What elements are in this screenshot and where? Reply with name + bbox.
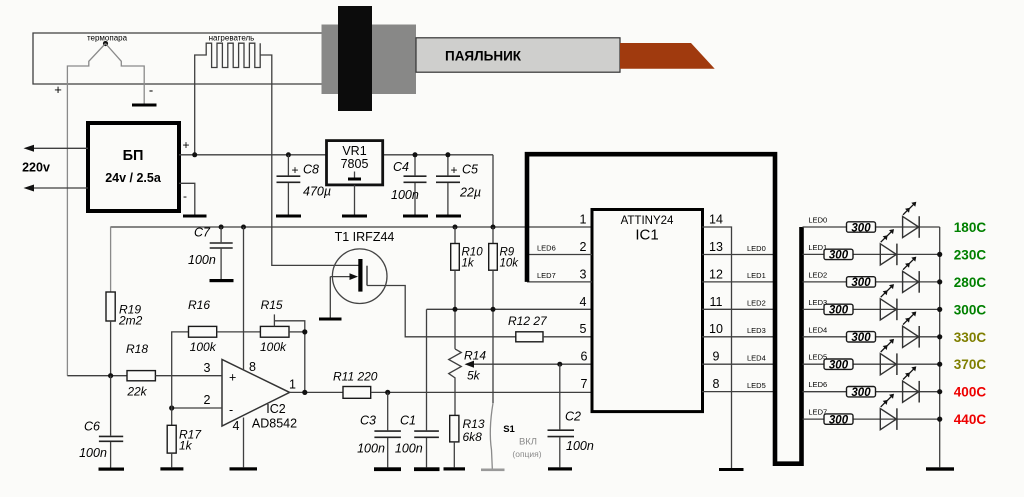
svg-text:+: +	[54, 82, 62, 97]
svg-text:22µ: 22µ	[459, 186, 481, 200]
svg-text:280C: 280C	[954, 275, 987, 290]
svg-text:ВКЛ: ВКЛ	[519, 437, 537, 448]
svg-text:2: 2	[580, 240, 587, 254]
svg-text:370C: 370C	[954, 357, 987, 372]
svg-text:300: 300	[829, 360, 849, 372]
svg-text:6: 6	[581, 350, 588, 364]
svg-text:AD8542: AD8542	[252, 417, 297, 431]
svg-text:C8: C8	[303, 163, 319, 177]
svg-text:IC2: IC2	[266, 402, 286, 416]
svg-text:БП: БП	[123, 148, 144, 164]
svg-text:10k: 10k	[500, 258, 520, 270]
svg-text:3: 3	[580, 267, 587, 281]
svg-text:ПАЯЛЬНИК: ПАЯЛЬНИК	[445, 49, 522, 64]
svg-text:100k: 100k	[260, 340, 287, 354]
svg-text:LED6: LED6	[537, 244, 556, 253]
svg-text:470µ: 470µ	[303, 185, 331, 199]
svg-text:300: 300	[851, 387, 871, 399]
svg-text:100n: 100n	[391, 188, 419, 202]
svg-text:LED3: LED3	[747, 326, 766, 335]
svg-text:2m2: 2m2	[118, 314, 143, 328]
svg-text:C4: C4	[393, 160, 409, 174]
svg-text:-: -	[149, 83, 153, 98]
svg-text:C6: C6	[84, 420, 100, 434]
svg-text:LED0: LED0	[808, 216, 827, 225]
svg-text:R13: R13	[463, 417, 485, 431]
svg-text:(опция): (опция)	[512, 449, 541, 459]
svg-text:100n: 100n	[395, 442, 423, 456]
svg-text:C7: C7	[194, 226, 211, 240]
svg-text:2: 2	[204, 393, 211, 407]
svg-text:LED6: LED6	[808, 380, 827, 389]
svg-text:3: 3	[204, 361, 211, 375]
svg-text:LED2: LED2	[808, 270, 827, 279]
svg-text:100n: 100n	[79, 446, 107, 460]
svg-text:+: +	[291, 163, 298, 177]
svg-text:12: 12	[709, 267, 723, 281]
svg-text:13: 13	[709, 240, 723, 254]
svg-text:10: 10	[709, 322, 723, 336]
svg-text:300: 300	[829, 414, 849, 426]
svg-text:C5: C5	[462, 163, 478, 177]
svg-text:9: 9	[713, 350, 720, 364]
svg-text:100k: 100k	[190, 340, 217, 354]
svg-text:4: 4	[580, 295, 587, 309]
svg-text:300: 300	[829, 250, 849, 262]
svg-text:+: +	[182, 138, 189, 152]
svg-text:C2: C2	[565, 410, 581, 424]
svg-text:LED5: LED5	[747, 381, 766, 390]
svg-text:IC1: IC1	[635, 227, 658, 244]
svg-text:R16: R16	[188, 298, 210, 312]
svg-text:1k: 1k	[179, 439, 193, 453]
svg-text:S1: S1	[503, 424, 515, 435]
svg-text:LED7: LED7	[537, 271, 556, 280]
svg-text:440C: 440C	[954, 412, 987, 427]
svg-text:R18: R18	[126, 342, 148, 356]
svg-text:LED2: LED2	[747, 299, 766, 308]
svg-text:400C: 400C	[954, 385, 987, 400]
svg-text:C1: C1	[400, 414, 416, 428]
svg-text:330C: 330C	[954, 330, 987, 345]
svg-text:7: 7	[581, 377, 588, 391]
svg-text:300: 300	[851, 222, 871, 234]
svg-text:300: 300	[851, 332, 871, 344]
svg-text:100n: 100n	[188, 253, 216, 267]
svg-text:300: 300	[851, 277, 871, 289]
svg-text:11: 11	[710, 295, 723, 309]
svg-text:6k8: 6k8	[463, 430, 483, 444]
svg-text:230C: 230C	[954, 247, 987, 262]
svg-text:4: 4	[233, 419, 240, 433]
svg-text:T1 IRFZ44: T1 IRFZ44	[335, 230, 395, 244]
svg-text:8: 8	[249, 360, 256, 374]
svg-text:100n: 100n	[566, 439, 594, 453]
svg-text:180C: 180C	[954, 220, 987, 235]
svg-text:R12 27: R12 27	[508, 314, 548, 328]
svg-text:1: 1	[289, 378, 296, 392]
svg-text:14: 14	[709, 213, 723, 227]
svg-text:-: -	[183, 189, 187, 203]
svg-text:LED1: LED1	[747, 271, 766, 280]
svg-text:300C: 300C	[954, 302, 987, 317]
svg-text:термопара: термопара	[87, 34, 128, 43]
svg-text:22k: 22k	[126, 385, 147, 399]
svg-text:LED0: LED0	[747, 244, 766, 253]
svg-text:7805: 7805	[341, 157, 369, 171]
svg-text:нагреватель: нагреватель	[209, 34, 255, 43]
svg-text:100n: 100n	[357, 442, 385, 456]
svg-text:+: +	[450, 163, 457, 177]
svg-text:24v / 2.5a: 24v / 2.5a	[105, 171, 162, 185]
svg-text:ATTINY24: ATTINY24	[621, 215, 674, 227]
svg-text:5k: 5k	[467, 369, 481, 383]
svg-text:R11 220: R11 220	[333, 370, 378, 384]
svg-text:VR1: VR1	[342, 144, 366, 158]
svg-text:+: +	[229, 371, 236, 385]
svg-text:300: 300	[829, 305, 849, 317]
svg-text:220v: 220v	[22, 161, 50, 175]
svg-text:R14: R14	[464, 349, 486, 363]
svg-text:C3: C3	[360, 414, 376, 428]
svg-text:8: 8	[713, 377, 720, 391]
svg-text:R15: R15	[261, 298, 283, 312]
svg-text:LED4: LED4	[808, 325, 827, 334]
svg-text:1: 1	[580, 213, 587, 227]
svg-text:LED4: LED4	[747, 354, 766, 363]
svg-text:5: 5	[580, 322, 587, 336]
svg-text:1k: 1k	[462, 258, 475, 270]
svg-text:-: -	[229, 403, 233, 417]
